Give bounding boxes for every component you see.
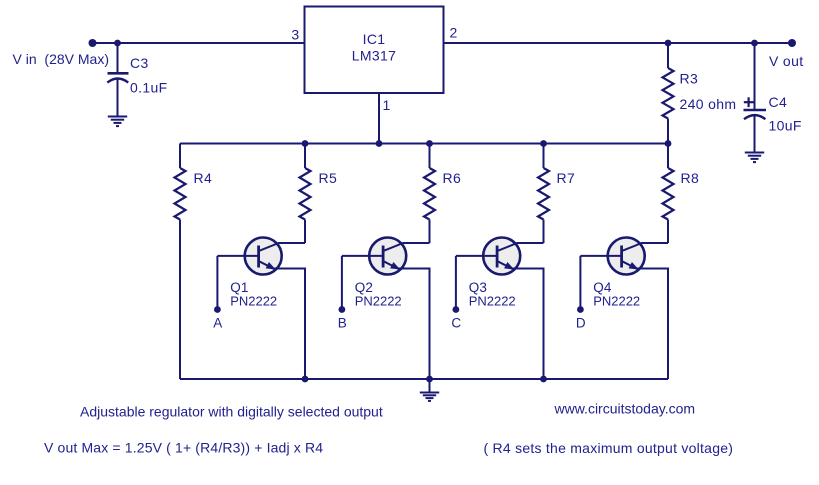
wire: Q2 base to node B [341,256,343,310]
junction: R8 top / R3 bottom [665,140,672,147]
junction: R6 top [426,140,433,147]
svg-text:3: 3 [291,27,299,43]
svg-text:10uF: 10uF [769,118,802,134]
svg-text:R5: R5 [319,170,338,186]
svg-text:( R4 sets the maximum output v: ( R4 sets the maximum output voltage) [484,440,734,456]
svg-text:PN2222: PN2222 [355,293,402,308]
input terminal dot (Vin) [89,39,97,47]
svg-text:C4: C4 [769,94,788,110]
junction: Q2 emitter / ground tap [426,376,433,383]
resistor R6 [424,144,435,244]
resistor R4 [175,144,186,380]
svg-text:R7: R7 [557,170,576,186]
node A terminal dot [214,306,221,313]
resistor R8 [663,144,674,244]
svg-text:C: C [451,316,461,331]
wire: Q3 base to node C [455,256,457,310]
wire: ADJ rail [180,143,668,145]
wire: Q1 base to node A [216,256,218,310]
svg-text:PN2222: PN2222 [230,293,277,308]
resistor R5 [300,144,311,244]
resistor R3 [663,43,674,144]
transistor Q1 (NPN PN2222) [217,238,305,380]
wire: Q4 base to node D [579,256,581,310]
ground (below C3) [108,117,127,127]
transistor Q4 (NPN PN2222) [580,238,668,380]
svg-text:1: 1 [383,97,391,113]
svg-text:PN2222: PN2222 [593,293,640,308]
resistor R7 [538,144,549,244]
node D terminal dot [577,306,584,313]
svg-text:D: D [576,316,586,331]
svg-text:2: 2 [450,25,458,41]
junction: R5 top [302,140,309,147]
svg-text:R3: R3 [680,71,699,87]
svg-text:C3: C3 [130,55,149,71]
svg-text:Adjustable regulator with digi: Adjustable regulator with digitally sele… [80,404,383,420]
junction: Q1 emitter on ground rail [302,376,309,383]
wire: IC pin 2 to Vout [444,42,793,44]
junction: R3 top [665,40,672,47]
svg-text:www.circuitstoday.com: www.circuitstoday.com [554,401,696,417]
capacitor C3 [107,43,128,116]
junction: R7 top [540,140,547,147]
transistor Q2 (NPN PN2222) [342,238,430,380]
svg-text:V in (28V Max): V in (28V Max) [13,51,109,67]
svg-text:R4: R4 [194,170,213,186]
svg-text:V out Max = 1.25V ( 1+ (R4/R3): V out Max = 1.25V ( 1+ (R4/R3)) + Iadj x… [44,440,323,456]
op-amp/regulator IC1 LM317 [305,7,444,94]
wire: IC pin 1 to ADJ rail [378,93,380,144]
junction: C3 tap on input rail [114,40,121,47]
svg-text:PN2222: PN2222 [469,293,516,308]
svg-text:240 ohm: 240 ohm [680,96,737,112]
ground (main, below rail) [429,379,431,392]
svg-text:A: A [213,316,222,331]
ground (below C4) [745,153,764,163]
transistor Q3 (NPN PN2222) [456,238,544,380]
svg-text:R8: R8 [681,170,700,186]
junction: C4 top [751,40,758,47]
capacitor C4 (polarised) [744,43,767,152]
svg-text:0.1uF: 0.1uF [130,80,168,96]
svg-text:R6: R6 [443,170,462,186]
svg-text:IC1: IC1 [363,31,386,47]
junction: pin1 on ADJ rail [376,140,383,147]
wire: Vin to IC pin 3 [93,42,305,44]
junction: Q3 emitter on ground rail [540,376,547,383]
node B terminal dot [339,306,346,313]
node C terminal dot [453,306,460,313]
svg-text:V out: V out [769,53,803,69]
wire: bottom ground rail [180,378,668,380]
svg-text:LM317: LM317 [352,48,397,64]
svg-text:B: B [338,316,347,331]
output terminal dot (V out) [788,39,796,47]
